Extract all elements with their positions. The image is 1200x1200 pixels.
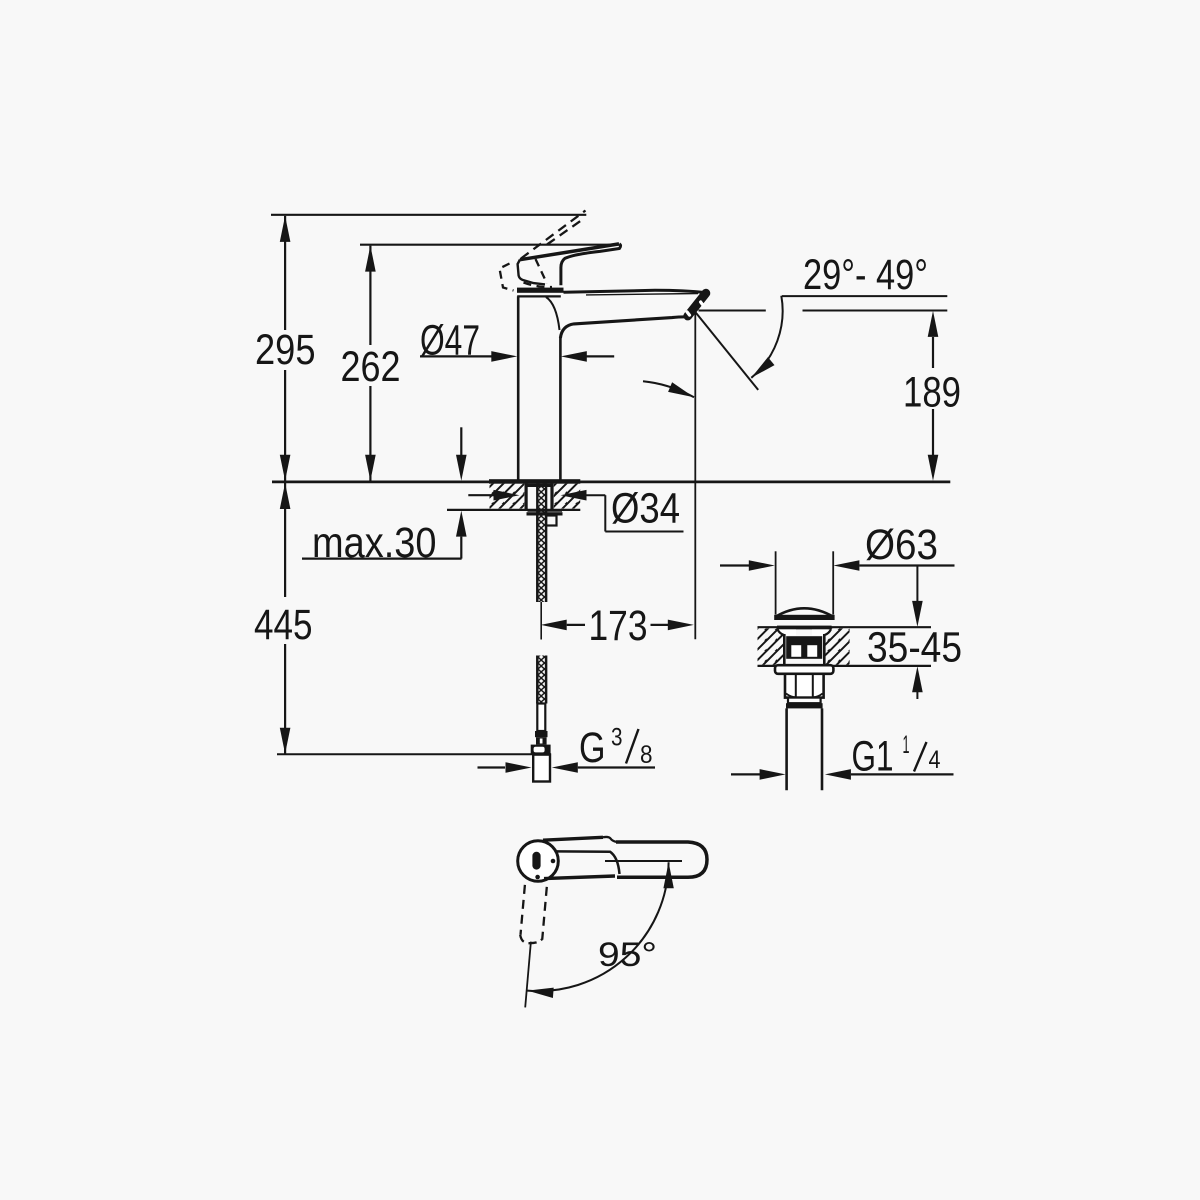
- svg-text:Ø47: Ø47: [420, 318, 480, 365]
- svg-text:8: 8: [640, 741, 653, 769]
- svg-text:295: 295: [255, 327, 316, 374]
- svg-text:G: G: [579, 725, 606, 772]
- svg-text:G1: G1: [852, 734, 894, 781]
- svg-text:1: 1: [903, 731, 910, 759]
- svg-text:4: 4: [929, 746, 941, 774]
- svg-text:29°- 49°: 29°- 49°: [803, 252, 928, 299]
- svg-text:445: 445: [254, 602, 313, 649]
- svg-text:3: 3: [611, 724, 623, 752]
- svg-text:189: 189: [903, 369, 961, 416]
- svg-text:Ø34: Ø34: [611, 485, 680, 532]
- svg-text:max.30: max.30: [312, 520, 437, 567]
- svg-text:173: 173: [589, 603, 648, 650]
- svg-text:95°: 95°: [598, 936, 657, 974]
- svg-text:Ø63: Ø63: [865, 522, 938, 569]
- svg-text:262: 262: [341, 344, 401, 391]
- svg-text:35-45: 35-45: [867, 624, 962, 671]
